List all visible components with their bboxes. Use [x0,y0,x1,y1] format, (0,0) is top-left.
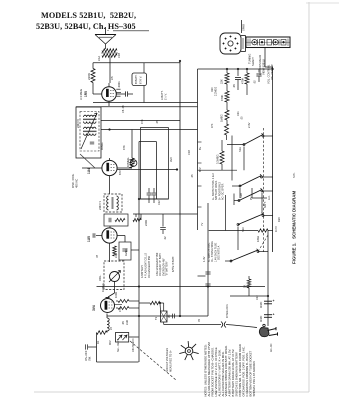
svg-text:BATT.: BATT. [264,201,267,208]
svg-text:C21: C21 [237,111,240,116]
selenium rectifier arrows [118,335,123,340]
capacitor C30 onoff [85,344,87,349]
T1 caps inside [90,141,94,143]
resistor R1 220K [91,69,95,83]
wire V3 grid left stub [96,235,102,237]
svg-text:52B3U, 52B4U, Ch. HS–305: 52B3U, 52B4U, Ch. HS–305 [36,22,136,31]
svg-text:C12: C12 [158,200,161,205]
capacitor C24 on x208 [205,283,210,285]
capacitor C20 [237,69,239,76]
svg-text:.05: .05 [241,116,244,120]
svg-text:1U5: 1U5 [87,236,91,242]
svg-text:.05: .05 [190,174,194,178]
tube V2 grid dashes [111,164,115,166]
tube V1 pin stubs [116,88,120,90]
wire V2 plate right [118,167,133,169]
svg-text:OR EVEREADY 950: OR EVEREADY 950 [148,255,151,278]
volume control R6 pot [110,272,120,282]
wire vol to V4 [114,282,116,294]
junction dot k [179,315,181,317]
svg-text:C31 50MFD: C31 50MFD [132,338,135,352]
svg-text:52B1: 52B1 [293,172,296,178]
junction dot b [237,68,239,70]
junction dot a [226,68,228,70]
svg-text:1½ V.: 1½ V. [164,93,168,100]
chassis hatch [247,39,249,47]
wire SR right [129,336,139,338]
wire V3 cathode down [109,244,111,263]
volume control dashed box [104,261,124,290]
tick bus 4 [198,206,202,208]
wire long riser x139 [138,142,140,363]
tube V1 grid dashes [110,90,114,92]
wire x232 riser [231,136,233,181]
svg-text:7V: 7V [200,223,204,226]
svg-text:455KC: 455KC [100,142,104,150]
wire loop rectangle A [141,128,169,199]
tube socket chart circle [185,347,193,355]
resistor R11 chain top [226,69,228,73]
antenna coupling coil L1 [102,49,117,53]
tube V2 1U4 IF amplifier envelope [102,160,117,175]
tube V4 top tick [106,297,110,299]
svg-text:47K: 47K [118,307,122,312]
svg-text:40MF: 40MF [260,315,263,322]
loop antenna L1 symbol [105,27,107,35]
switch S1A wafer [243,144,245,146]
capacitor C13 [162,214,164,227]
svg-text:B BATT.: B BATT. [134,74,138,84]
resistor R15 [221,140,223,151]
speaker frame [220,33,241,54]
switch S1B wafer [239,185,241,187]
svg-text:40MF: 40MF [260,301,263,308]
wire choke to resistor [106,331,108,333]
wire V2 cathode down [109,176,111,194]
wire S1E pole stub [225,260,231,262]
svg-text:T3: T3 [154,316,158,320]
wire main bus y106 [76,106,198,108]
svg-text:3.3 MEG: 3.3 MEG [79,89,83,100]
svg-text:2.2MEG: 2.2MEG [215,87,218,96]
svg-text:87V: 87V [198,167,202,172]
wire onoff stub [88,346,97,348]
T2 core [111,197,113,209]
wire T1 to V2 top [109,158,111,160]
wire avc y169 [118,169,178,171]
battery label box [132,73,147,86]
svg-text:INTERLOCK: INTERLOCK [226,304,229,318]
resistor R9 bias [97,331,108,335]
junction dot i [179,60,181,62]
resistor R14 [246,69,248,73]
wire top bus y69 [198,68,273,70]
wire right riser x180 [179,61,181,316]
wire coupling box to bus [131,249,139,251]
wire V1 plate right [117,93,126,95]
wire y276 stub [198,275,206,277]
wire y296 [230,295,268,297]
svg-text:MODELS 52B1U, 52B2U,: MODELS 52B1U, 52B2U, [41,11,136,20]
svg-text:67V: 67V [118,170,122,175]
resistor R5 below V3 [113,246,117,256]
svg-text:130Ω: 130Ω [257,236,260,242]
tube socket pins [193,352,199,354]
resistor R12 chain mid [225,91,229,102]
svg-text:455 KC: 455 KC [75,179,79,188]
junction dot e [138,286,140,288]
line cord right [233,325,257,328]
wire V3 plate right [118,235,126,237]
svg-text:3.3MEG: 3.3MEG [216,154,220,164]
svg-text:1K: 1K [96,341,100,344]
wire V4 cathode [106,314,108,319]
svg-text:47K: 47K [211,123,214,128]
resistor R13 chain low [225,110,229,120]
resistor R10 below y214 [135,214,137,217]
dashed gang line to tuning cap [80,154,95,168]
wire bottom bus y362 [97,361,139,363]
wire antenna lead down [105,44,107,49]
wire x208 riser [207,203,209,316]
wire C2 right stub [128,93,133,95]
chassis rear bar [246,37,290,48]
svg-text:C1B: C1B [117,53,121,58]
svg-text:.05: .05 [121,321,125,325]
interlock connector [221,322,223,328]
wire antenna to V1 top [109,57,111,63]
svg-text:L5: L5 [109,326,113,330]
svg-text:VOL.: VOL. [98,274,102,281]
junction dot j [138,315,140,317]
svg-text:22K: 22K [220,79,224,84]
svg-text:+: + [273,313,275,317]
chassis tube circle 1 [252,40,257,45]
svg-text:ON–OFF: ON–OFF [84,350,88,361]
tube V4 cathode bar [105,301,107,310]
wire chassis elbow [265,66,273,68]
svg-text:CHASSIS REAR: CHASSIS REAR [258,55,262,75]
filter choke L5 [107,318,109,331]
svg-text:+: + [273,299,275,303]
wire loop rectangle B right [155,142,157,200]
resistor R3 10MEG [130,158,134,168]
switch mechanical dashed link [263,128,265,252]
wire chassis lead down [264,48,266,68]
T1 core lines [83,118,97,120]
IF transformer T1 inner box [80,112,99,152]
junction dot m [272,68,274,70]
svg-text:C22: C22 [256,295,259,300]
detector filter box [104,214,128,226]
resistor R17 [248,276,250,279]
IF transformer T1 can outline [76,107,101,158]
chassis detail rects [260,40,265,46]
tube V4 grid dashes [109,301,113,303]
svg-text:"B" BATTERY: "B" BATTERY [166,261,169,276]
resistor R7 V4 right upper [116,300,118,302]
tube V4 3V4 output envelope [101,299,115,313]
wire grid drop x93 [92,63,94,69]
svg-text:SPKR: SPKR [242,24,246,31]
wire bias left down [96,333,98,363]
svg-text:2.4V: 2.4V [247,122,251,128]
svg-text:SHAFT: SHAFT [251,57,255,66]
svg-text:.02: .02 [163,236,167,240]
switch S1C wafer [238,200,240,202]
T2 coils [107,196,109,210]
svg-text:.0001: .0001 [117,81,121,88]
wire T3 top lead [159,303,162,311]
resistor R8 V4 right lower [116,307,118,309]
svg-text:SEE NOTE A: SEE NOTE A [218,245,221,260]
svg-text:VC: VC [168,314,171,318]
switch S1E wafer [230,260,232,262]
svg-text:C14: C14 [114,253,118,258]
svg-text:C30: C30 [125,320,129,325]
svg-text:C5: C5 [110,76,114,80]
svg-text:A.C.: A.C. [268,195,271,200]
tube V3 grid dashes [111,231,115,233]
svg-text:67½V. B BATT.: 67½V. B BATT. [171,256,175,272]
junction dot f [207,286,209,288]
capacitor C25 tone [167,315,172,317]
title underline under HS-305 [113,30,149,32]
wire S1B pole stub [232,185,240,187]
svg-text:MEASURED TO B–: MEASURED TO B– [170,349,173,372]
selenium rectifier SR box [116,333,129,343]
junction dot c [246,68,248,70]
svg-text:47: 47 [95,254,99,258]
electrolytic C22B [264,314,272,316]
T1 tuning arrow [81,113,97,149]
junction dot g [267,295,269,297]
output transformer T3 [161,311,168,322]
svg-text:10MEG: 10MEG [101,283,105,292]
svg-text:SHOWN. PIN 1 AT ARROW.: SHOWN. PIN 1 AT ARROW. [252,361,256,397]
svg-text:90V: 90V [108,340,112,345]
T1 secondary coil [84,127,97,129]
svg-text:AC–DC OPER.: AC–DC OPER. [222,183,225,200]
wire loop bottom y199 [139,198,168,200]
svg-text:SEL. RECT.: SEL. RECT. [117,338,120,352]
capacitor C21 [258,69,260,73]
svg-text:P2: P2 [198,318,201,322]
wire S1C pole stub [234,200,239,202]
speaker top lead [241,20,243,33]
svg-text:1MEG: 1MEG [124,248,128,256]
tube V1 cathode bar [106,89,108,97]
wire bus y102.5 [93,102,198,104]
power plug P1 [259,328,269,337]
wire T1 out upper y120.5 [101,120,180,122]
svg-text:24K770: 24K770 [76,118,80,128]
line cord [164,324,221,326]
T1 primary coil [84,115,97,117]
wire V2 grid left [82,167,102,169]
svg-text:B+: B+ [198,146,202,150]
dashed linkage up [258,235,268,252]
svg-text:24K771: 24K771 [98,200,102,210]
svg-text:3V4: 3V4 [92,305,96,311]
svg-text:SW.: SW. [88,356,92,361]
wire y286 long bus [97,286,266,288]
wire T2 to V3 [109,226,111,228]
wire x234 riser [233,194,235,206]
wire V1 cathode down [108,102,110,107]
wire left riser x197.5 [197,69,199,230]
page edge bottom border [34,391,309,393]
speaker center [228,41,233,46]
wire plate to T3 [139,302,150,304]
svg-text:TUNING: TUNING [248,54,252,64]
svg-text:10MEG: 10MEG [126,158,130,167]
wire antenna bus y61 [93,62,180,64]
svg-text:67½ V.: 67½ V. [139,76,143,84]
wire S1D down link [237,227,239,251]
svg-text:470K: 470K [241,78,245,84]
IF transformer T2 dashed can [104,194,122,212]
junction dot l [159,302,161,304]
resistor R13B chain low2 [225,124,229,135]
wire right riser x272 lower [272,130,274,252]
svg-text:AVC: AVC [169,157,173,162]
svg-text:.02: .02 [253,80,257,84]
wire riser x268 [267,230,269,326]
capacitor C2 at V1 plate [125,91,127,96]
wire S1D pole stub [238,224,240,226]
wire V4 screen bus y316 [107,315,208,317]
svg-text:FIGURE 1. SCHEMATIC DIAGRA: FIGURE 1. SCHEMATIC DIAGRAM [292,191,297,264]
svg-text:9V: 9V [249,197,253,200]
capacitor C23 on x208 [205,271,210,273]
trimmer pot small [130,160,137,167]
wire stub y198 [251,188,253,198]
speaker cone dots [237,43,238,44]
svg-text:S1B: S1B [239,193,243,198]
tick bus 2 [198,162,202,164]
svg-text:AC–DC: AC–DC [270,343,273,352]
tube V3 1U5 det-avc-af envelope [102,228,117,243]
tube V2 cathode bar [107,163,109,171]
wire T3 down [163,322,165,325]
svg-text:117V: 117V [274,226,278,232]
svg-text:100K: 100K [114,292,118,298]
svg-text:S1C: S1C [241,227,245,232]
switch S1D wafer [237,224,239,226]
wire R3 top to bus [131,130,133,159]
coupling box right of V3 [119,242,131,260]
speaker mounting bracket [241,35,246,37]
junction dot h [109,129,111,131]
svg-text:220K: 220K [144,220,148,226]
page edge right border [308,2,310,392]
svg-text:R20: R20 [277,217,281,222]
svg-text:C1A: C1A [97,56,101,61]
svg-text:1MEG: 1MEG [220,114,224,122]
svg-text:1U4: 1U4 [87,168,91,174]
svg-text:.05: .05 [155,120,159,124]
coupling cap inside [122,248,127,250]
wire loop rectangle B top [139,141,156,143]
resistor R16 x266 [209,230,258,232]
tube V3 cathode bar [107,231,109,239]
junction dot d [138,198,140,200]
wire y220 stub [224,195,226,231]
wire S1B to S1C link [239,188,241,198]
wire T1 out lower y129.5 [101,129,198,131]
capacitor C11 pair [148,188,150,193]
detector filter parts [108,218,110,222]
svg-text:1.4V: 1.4V [202,256,206,262]
svg-text:C18: C18 [187,150,191,155]
resistor R18 T3 feed [150,301,160,304]
svg-text:470K: 470K [220,95,224,101]
electrolytic C22A [264,300,272,302]
wire S1C down link [261,193,263,213]
wire R1 to V1 grid [92,83,94,95]
volume control arrow [109,271,121,283]
svg-text:220K: 220K [87,73,91,80]
tick bus 1 [198,141,202,143]
page corner top right [306,2,339,4]
wire bus y214 [133,213,198,215]
tube V1 1R5 converter envelope [102,87,117,102]
wire S1A pole stub [227,144,244,146]
svg-text:47K: 47K [122,145,126,150]
svg-text:.05: .05 [232,84,236,88]
tick bus 3 [198,185,202,187]
svg-text:1R5: 1R5 [84,91,88,97]
svg-text:A BATT.: A BATT. [160,90,164,100]
T1 core lines 2 [83,130,97,132]
svg-text:S1A: S1A [238,147,242,152]
chassis tube circle 2 [273,40,278,45]
dashed leader line to tube socket chart [130,341,176,380]
svg-text:ON–OFF SW.: ON–OFF SW. [270,64,274,80]
wire S1A to S1B link [243,147,245,171]
wire V4 mid stub [115,304,123,306]
svg-text:C6 .05: C6 .05 [121,105,125,113]
svg-text:47K: 47K [140,119,144,124]
wire battery box feed [143,63,145,73]
